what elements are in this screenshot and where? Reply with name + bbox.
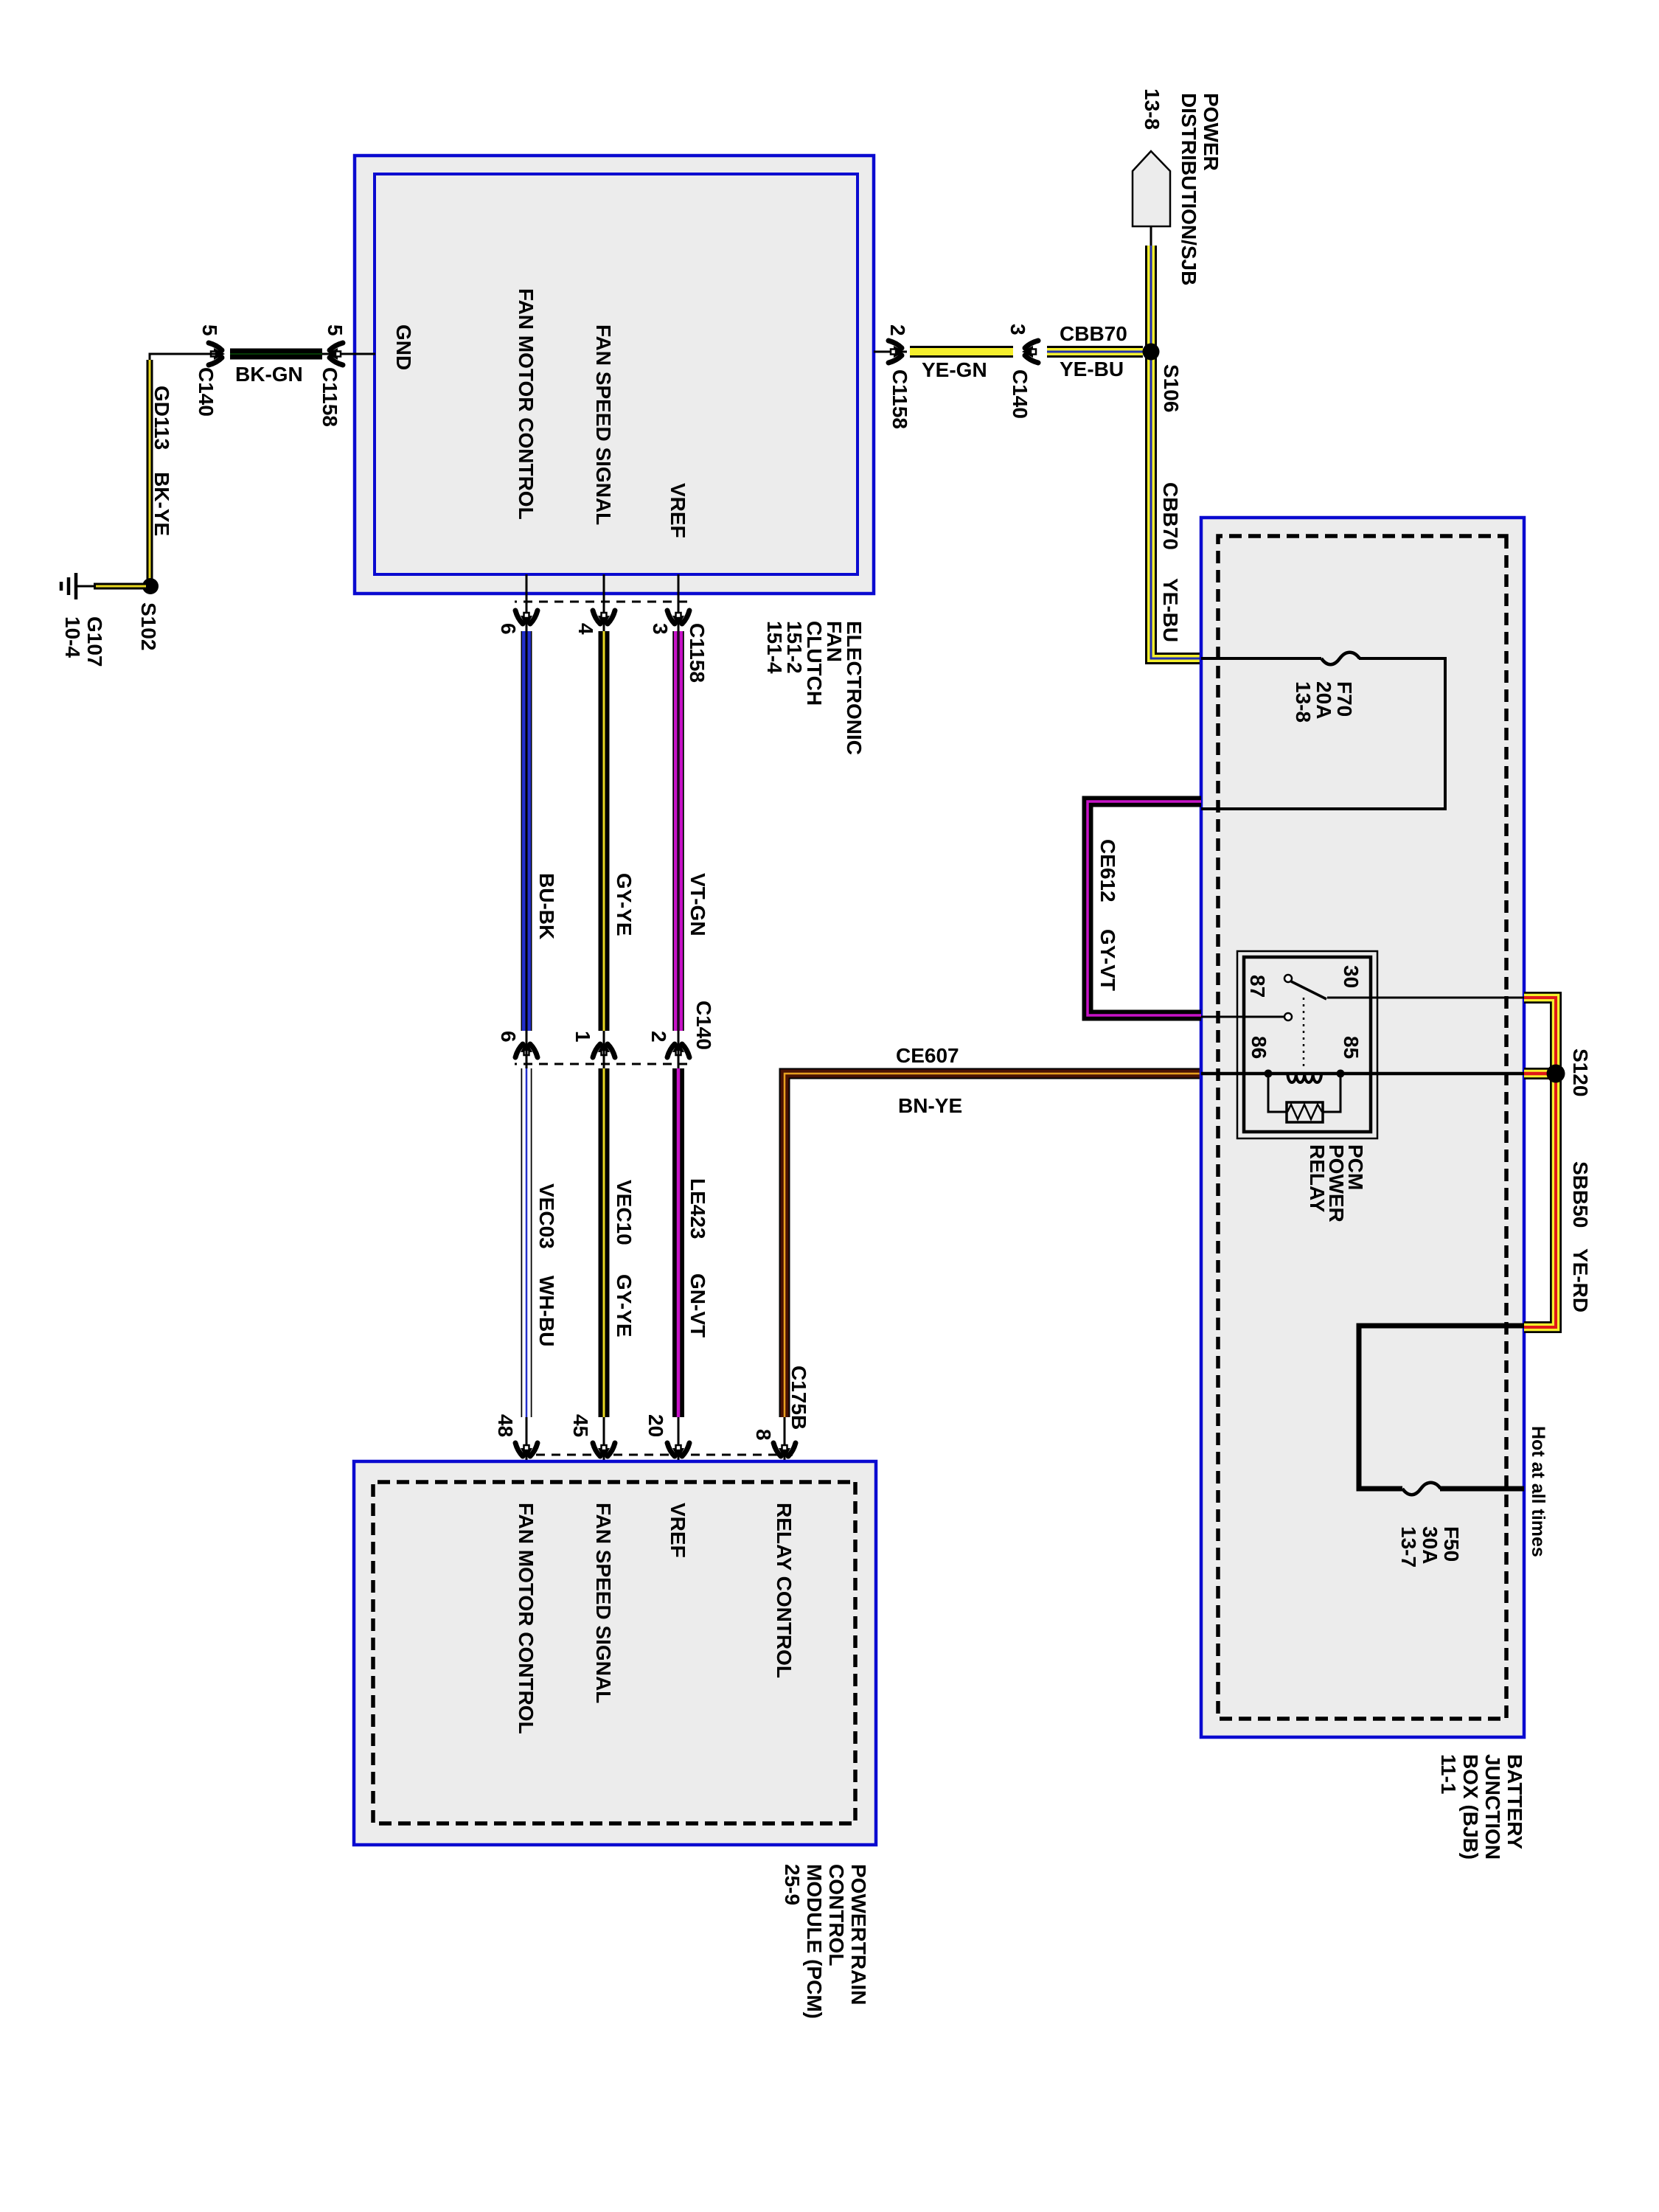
svg-text:4: 4 xyxy=(574,623,597,635)
wire stub from arrow xyxy=(1150,226,1152,248)
svg-text:10-4: 10-4 xyxy=(61,616,84,658)
svg-text:FAN SPEED SIGNAL: FAN SPEED SIGNAL xyxy=(592,324,615,525)
wire VT-GN (vref) xyxy=(672,631,684,1031)
splice S106 xyxy=(1143,344,1160,361)
splice S102 xyxy=(142,578,159,594)
svg-text:87: 87 xyxy=(1246,975,1269,998)
svg-text:5: 5 xyxy=(198,324,221,336)
connector arrow C140 pin 2 xyxy=(667,1041,689,1057)
svg-text:YE-GN: YE-GN xyxy=(922,358,987,381)
svg-text:5: 5 xyxy=(324,324,347,336)
connector arrow C140 pin 3 xyxy=(1022,341,1038,363)
svg-text:YE-BU: YE-BU xyxy=(1159,578,1182,642)
wire GN-VT (LE423 vref) xyxy=(672,1068,684,1417)
svg-text:FAN MOTOR CONTROL: FAN MOTOR CONTROL xyxy=(515,288,538,520)
svg-text:CONTROL: CONTROL xyxy=(825,1864,848,1966)
wire CBB70 YE-BU main run to BJB xyxy=(1151,246,1201,658)
fuse F70 20A xyxy=(1321,653,1360,665)
wire stub below C140 gnd xyxy=(150,354,223,369)
wire from SBB50 to fuse F50 xyxy=(1359,1326,1524,1489)
svg-text:13-8: 13-8 xyxy=(1292,681,1315,723)
svg-text:2: 2 xyxy=(886,324,909,336)
svg-text:SBB50: SBB50 xyxy=(1569,1161,1592,1228)
power distribution arrow (to 13-8) xyxy=(1133,151,1170,226)
connector arrow C1158 pin 6 xyxy=(515,611,538,627)
relay coil winding xyxy=(1287,1074,1321,1082)
relay suppression resistor path xyxy=(1268,1074,1287,1112)
svg-text:WH-BU: WH-BU xyxy=(535,1276,558,1346)
svg-text:S106: S106 xyxy=(1160,364,1183,412)
svg-text:LE423: LE423 xyxy=(686,1178,709,1239)
svg-text:F70: F70 xyxy=(1333,681,1356,717)
svg-text:VEC10: VEC10 xyxy=(613,1180,636,1245)
connector arrow C1158 pin 4 xyxy=(593,611,615,627)
svg-text:13-8: 13-8 xyxy=(1141,88,1164,130)
svg-text:POWER: POWER xyxy=(1200,93,1222,171)
wire GND pin stub xyxy=(319,353,375,355)
wire BU-BK (fan motor control) xyxy=(521,631,532,1031)
svg-text:20: 20 xyxy=(644,1414,667,1437)
resistor box xyxy=(1287,1102,1323,1122)
svg-text:S120: S120 xyxy=(1569,1048,1592,1096)
svg-text:FAN SPEED SIGNAL: FAN SPEED SIGNAL xyxy=(592,1503,615,1703)
svg-text:JUNCTION: JUNCTION xyxy=(1481,1754,1504,1860)
svg-text:BK-GN: BK-GN xyxy=(235,363,303,386)
svg-text:C140: C140 xyxy=(692,1001,715,1050)
svg-text:6: 6 xyxy=(497,1031,520,1043)
svg-text:CE607: CE607 xyxy=(896,1044,959,1067)
svg-text:C1158: C1158 xyxy=(888,369,911,429)
svg-text:6: 6 xyxy=(497,623,520,635)
svg-text:BU-BK: BU-BK xyxy=(535,873,558,939)
svg-text:1: 1 xyxy=(571,1031,594,1043)
svg-text:GY-VT: GY-VT xyxy=(1096,929,1119,991)
electronic fan clutch box (inner) xyxy=(375,174,858,574)
battery junction box (inner dashed) xyxy=(1218,536,1506,1719)
svg-text:C140: C140 xyxy=(195,367,218,417)
connector arrow C140 pin 5 xyxy=(209,343,225,365)
svg-text:GY-YE: GY-YE xyxy=(613,873,636,936)
wire pin 2 stub xyxy=(874,351,907,353)
svg-text:GY-YE: GY-YE xyxy=(613,1274,636,1338)
svg-text:CBB70: CBB70 xyxy=(1060,322,1127,345)
svg-text:CBB70: CBB70 xyxy=(1159,482,1182,550)
svg-text:BK-YE: BK-YE xyxy=(150,472,173,536)
wire to fuse F70 xyxy=(1201,657,1321,660)
svg-text:MODULE (PCM): MODULE (PCM) xyxy=(803,1864,826,2019)
svg-text:2: 2 xyxy=(647,1031,670,1043)
connector arrow C1158 pin 2 xyxy=(888,341,905,363)
wire relay terminal 87 xyxy=(1201,1016,1284,1018)
svg-text:48: 48 xyxy=(494,1414,517,1437)
battery junction box (outer) xyxy=(1201,518,1524,1737)
svg-text:C140: C140 xyxy=(1009,369,1032,419)
connector C140 dashed line (row B) xyxy=(515,1063,687,1065)
connector arrow PCM pin 20 xyxy=(667,1443,689,1459)
svg-text:3: 3 xyxy=(1006,324,1029,335)
wire BK-YE down to ground xyxy=(94,583,146,590)
relay 87 contact xyxy=(1284,1013,1292,1020)
wire pin stubs clutch to C1158 xyxy=(526,574,528,633)
relay switch arm xyxy=(1291,981,1326,999)
svg-text:BN-YE: BN-YE xyxy=(898,1094,962,1117)
svg-text:20A: 20A xyxy=(1312,681,1335,719)
wire GY-YE (VEC10 fan speed signal) xyxy=(599,1068,610,1417)
powertrain control module box (inner dashed) xyxy=(373,1482,855,1823)
svg-text:BOX (BJB): BOX (BJB) xyxy=(1459,1754,1482,1860)
svg-text:30A: 30A xyxy=(1419,1526,1441,1564)
wire relay coil 86-85 xyxy=(1201,1072,1524,1076)
svg-text:POWERTRAIN: POWERTRAIN xyxy=(847,1864,870,2005)
svg-text:S102: S102 xyxy=(137,602,160,650)
junction dot coil top xyxy=(1337,1070,1345,1078)
svg-text:Hot at all times: Hot at all times xyxy=(1528,1426,1548,1557)
relay armature dotted link xyxy=(1303,998,1305,1068)
svg-text:GD113: GD113 xyxy=(150,386,173,450)
svg-text:C1158: C1158 xyxy=(686,623,709,683)
svg-text:VEC03: VEC03 xyxy=(535,1183,558,1249)
wire stubs through C140 xyxy=(526,1031,528,1071)
connector arrow C140 pin 1 xyxy=(593,1041,615,1057)
wire GY-YE (fan speed signal) xyxy=(599,631,610,1031)
svg-text:CE612: CE612 xyxy=(1096,839,1119,902)
svg-text:G107: G107 xyxy=(83,616,106,667)
connector arrow C140 pin 6 xyxy=(515,1041,538,1057)
junction dot coil bottom xyxy=(1265,1070,1273,1078)
ground G107 xyxy=(74,573,78,599)
svg-text:45: 45 xyxy=(569,1414,592,1437)
resistor zigzag xyxy=(1287,1105,1322,1119)
svg-text:C1158: C1158 xyxy=(319,367,341,427)
connector C1158 dashed line (row A) xyxy=(515,601,687,603)
svg-text:GN-VT: GN-VT xyxy=(686,1273,709,1338)
wire YE-GN xyxy=(910,346,1013,358)
wire relay terminal 30 xyxy=(1327,997,1524,999)
svg-text:VT-GN: VT-GN xyxy=(686,873,709,936)
wire CE612 GY-VT xyxy=(1088,801,1201,1015)
wire tap to relay coil 85 xyxy=(1524,1068,1556,1079)
svg-text:30: 30 xyxy=(1340,965,1363,988)
svg-text:GND: GND xyxy=(392,324,415,370)
svg-text:RELAY: RELAY xyxy=(1306,1144,1329,1213)
relay 30 pivot contact xyxy=(1284,975,1292,982)
svg-text:13-7: 13-7 xyxy=(1397,1526,1420,1568)
svg-text:C175B: C175B xyxy=(787,1366,810,1430)
relay box (outer) xyxy=(1237,951,1377,1138)
fuse F50 30A xyxy=(1402,1483,1441,1495)
wire SBB50 YE-RD xyxy=(1524,998,1556,1327)
wire YE-BU (CBB70 to S106) xyxy=(1047,346,1143,358)
connector arrow C1158 pin 5 xyxy=(327,343,343,365)
svg-text:FAN MOTOR CONTROL: FAN MOTOR CONTROL xyxy=(515,1503,538,1734)
connector arrow PCM pin 8 xyxy=(773,1443,796,1459)
svg-text:VREF: VREF xyxy=(667,483,689,538)
connector dashed line (PCM row) xyxy=(515,1454,793,1456)
svg-text:YE-RD: YE-RD xyxy=(1569,1248,1592,1312)
powertrain control module box (outer) xyxy=(354,1461,876,1845)
svg-text:8: 8 xyxy=(752,1429,775,1441)
svg-text:11-1: 11-1 xyxy=(1437,1754,1460,1795)
svg-text:YE-BU: YE-BU xyxy=(1060,358,1124,380)
svg-text:BATTERY: BATTERY xyxy=(1503,1754,1526,1849)
connector arrow PCM pin 48 xyxy=(515,1443,538,1459)
svg-text:85: 85 xyxy=(1340,1036,1363,1059)
wire BK-GN (ground jumper) xyxy=(230,349,322,360)
connector arrow PCM pin 45 xyxy=(593,1443,615,1459)
wire WH-BU (VEC03 fan motor control) xyxy=(521,1068,532,1417)
connector arrow C1158 pin 3 xyxy=(667,611,689,627)
svg-text:RELAY CONTROL: RELAY CONTROL xyxy=(773,1503,796,1678)
svg-text:25-9: 25-9 xyxy=(781,1864,804,1905)
svg-text:86: 86 xyxy=(1248,1036,1270,1059)
wire GD113 BK-YE (ground feed) xyxy=(147,360,153,586)
svg-text:DISTRIBUTION/SJB: DISTRIBUTION/SJB xyxy=(1178,93,1200,285)
wire CE607 BN-YE (relay control) xyxy=(785,1074,1201,1417)
svg-text:3: 3 xyxy=(649,623,672,635)
svg-text:151-4: 151-4 xyxy=(763,621,786,674)
electronic fan clutch box (outer) xyxy=(355,156,874,594)
relay box (inner) xyxy=(1244,957,1371,1132)
svg-text:F50: F50 xyxy=(1440,1526,1463,1562)
svg-text:VREF: VREF xyxy=(667,1503,689,1558)
splice S120 xyxy=(1547,1065,1565,1083)
wire stubs into PCM xyxy=(526,1417,528,1484)
